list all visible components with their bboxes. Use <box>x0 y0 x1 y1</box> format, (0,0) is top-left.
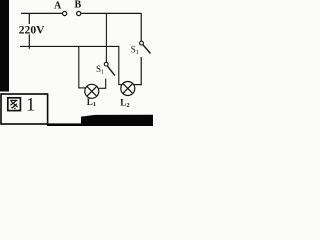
switch S2 lever <box>143 45 151 54</box>
bottom thin scan line <box>47 123 82 126</box>
wire: into right lamp <box>118 84 121 86</box>
figure label box <box>1 94 48 124</box>
left black scan bar <box>0 0 9 92</box>
switch S1 lever <box>107 66 115 76</box>
svg-text:220V: 220V <box>19 23 45 37</box>
switch S2 pivot <box>140 41 144 45</box>
wire: stub to left lamp right side <box>99 87 106 89</box>
lamp L1 <box>85 84 99 98</box>
svg-text:A: A <box>54 0 62 11</box>
svg-text:S1: S1 <box>131 45 139 57</box>
switch S1 pivot <box>104 62 108 66</box>
wire: middle branch from top feed <box>105 13 107 62</box>
switch S2 lower contact stub <box>140 57 142 85</box>
svg-text:L2: L2 <box>120 98 129 109</box>
wire: right branch down to switch <box>140 13 142 41</box>
wire: top feed, left segment to terminal A <box>21 12 62 14</box>
switch S1 lower contact stub <box>105 79 107 89</box>
wire: into left lamp <box>78 87 85 89</box>
wire: to right lamp right side <box>134 84 142 86</box>
character tu (figure) drawn manually <box>8 98 21 111</box>
lamp L2 <box>121 82 135 96</box>
svg-text:S1: S1 <box>96 64 104 76</box>
bottom-right black scan bar <box>81 115 153 126</box>
wire: drop to left lamp branch <box>78 46 80 88</box>
svg-text:1: 1 <box>26 95 35 115</box>
svg-text:L1: L1 <box>87 97 96 108</box>
wire: rail corner down to right lamp <box>118 46 120 85</box>
svg-text:B: B <box>75 0 82 11</box>
wire: second feed rail <box>20 45 119 47</box>
220V dimension stub, lower <box>28 34 30 49</box>
220V dimension stub, upper <box>28 13 30 24</box>
terminal A <box>63 11 67 15</box>
terminal B <box>77 11 81 15</box>
wire: top feed, from terminal B to right corner <box>81 12 142 14</box>
